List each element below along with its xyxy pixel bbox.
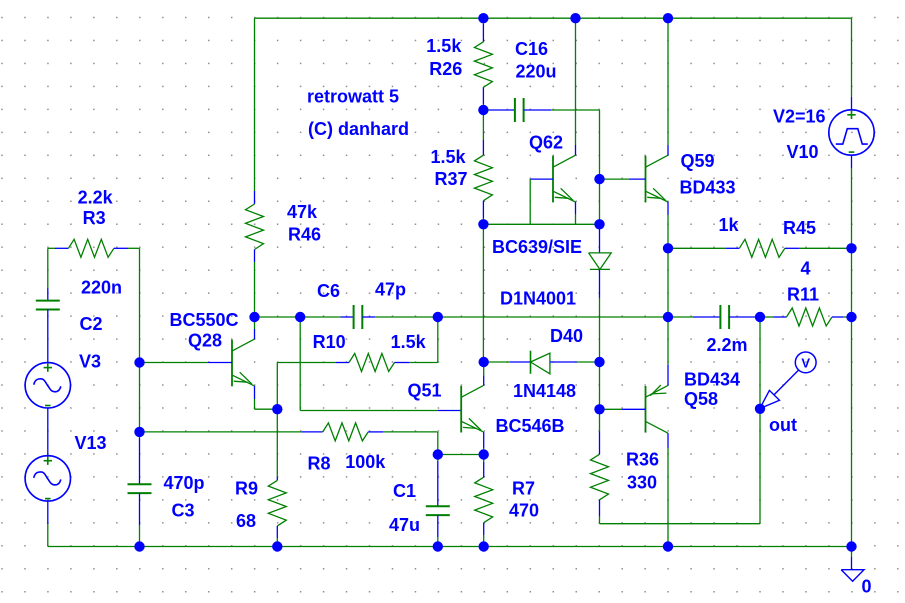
svg-text:R7: R7 — [512, 479, 535, 499]
svg-text:C2: C2 — [80, 314, 103, 334]
svg-text:220n: 220n — [81, 278, 122, 298]
svg-text:R10: R10 — [313, 332, 346, 352]
svg-text:1.5k: 1.5k — [391, 332, 427, 352]
svg-text:100k: 100k — [345, 452, 386, 472]
svg-text:220u: 220u — [516, 62, 557, 82]
svg-text:C1: C1 — [393, 481, 416, 501]
svg-text:47k: 47k — [287, 202, 318, 222]
svg-text:Q28: Q28 — [188, 331, 222, 351]
svg-text:68: 68 — [236, 511, 256, 531]
svg-text:0: 0 — [862, 576, 872, 596]
svg-text:470p: 470p — [164, 473, 205, 493]
svg-text:R36: R36 — [626, 450, 659, 470]
svg-text:R37: R37 — [435, 169, 468, 189]
svg-text:BC550C: BC550C — [170, 310, 239, 330]
svg-text:1k: 1k — [719, 215, 740, 235]
svg-text:47p: 47p — [375, 279, 406, 299]
svg-text:BD434: BD434 — [684, 370, 740, 390]
svg-text:R26: R26 — [429, 59, 462, 79]
svg-text:V10: V10 — [787, 142, 819, 162]
svg-text:R9: R9 — [235, 479, 258, 499]
svg-text:R11: R11 — [787, 285, 819, 305]
svg-text:out: out — [769, 415, 797, 435]
svg-text:4: 4 — [801, 259, 811, 279]
svg-text:C16: C16 — [515, 39, 548, 59]
svg-text:1.5k: 1.5k — [431, 147, 467, 167]
svg-text:Q51: Q51 — [408, 381, 442, 401]
svg-text:D40: D40 — [550, 326, 583, 346]
svg-text:(C) danhard: (C) danhard — [308, 119, 409, 139]
svg-text:2.2m: 2.2m — [707, 335, 748, 355]
svg-text:V13: V13 — [75, 433, 107, 453]
svg-text:Q58: Q58 — [684, 389, 718, 409]
svg-text:Q59: Q59 — [681, 151, 715, 171]
svg-text:D1N4001: D1N4001 — [500, 289, 576, 309]
svg-text:V: V — [801, 355, 810, 370]
svg-text:R8: R8 — [308, 453, 331, 473]
svg-text:1N4148: 1N4148 — [513, 381, 576, 401]
svg-text:R46: R46 — [288, 225, 321, 245]
svg-text:BC639/SIE: BC639/SIE — [492, 237, 582, 257]
svg-text:330: 330 — [627, 473, 657, 493]
svg-text:C6: C6 — [317, 281, 340, 301]
svg-text:1.5k: 1.5k — [426, 36, 462, 56]
svg-text:BC546B: BC546B — [496, 416, 565, 436]
svg-text:Q62: Q62 — [529, 133, 563, 153]
svg-text:470: 470 — [509, 501, 539, 521]
svg-text:47u: 47u — [389, 515, 420, 535]
svg-text:V3: V3 — [79, 352, 101, 372]
svg-text:R3: R3 — [83, 208, 106, 228]
svg-text:2.2k: 2.2k — [78, 188, 114, 208]
svg-text:R45: R45 — [783, 218, 816, 238]
svg-text:V2=16: V2=16 — [773, 107, 826, 127]
svg-text:C3: C3 — [172, 501, 195, 521]
svg-text:BD433: BD433 — [680, 178, 736, 198]
svg-text:retrowatt 5: retrowatt 5 — [307, 86, 399, 106]
